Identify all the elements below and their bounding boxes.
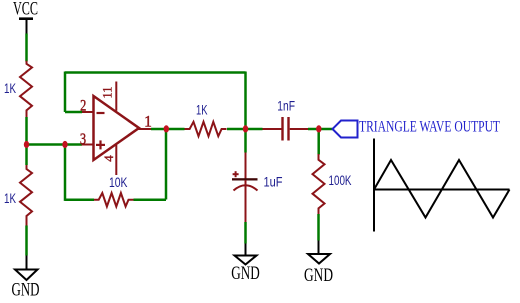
svg-text:1K: 1K	[196, 102, 208, 117]
wire VCC to R1	[25, 34, 28, 62]
svg-text:10K: 10K	[109, 175, 128, 190]
resistor R3 1K	[185, 122, 227, 136]
wire node A to R2	[25, 145, 28, 166]
node D junction	[243, 125, 248, 132]
node A junction	[24, 141, 29, 148]
wire node B to pin 3	[65, 143, 82, 146]
wire node C down to R5 row	[134, 129, 167, 200]
svg-text:1uF: 1uF	[264, 175, 283, 190]
wire pin1 to R3	[151, 128, 185, 131]
svg-text:1K: 1K	[4, 191, 16, 206]
ground (right)	[304, 241, 333, 287]
wire node A to node B	[27, 143, 66, 146]
svg-text:1: 1	[144, 114, 152, 131]
resistor R4 100K	[313, 154, 325, 214]
power symbol VCC	[13, 0, 38, 33]
svg-text:1K: 1K	[4, 81, 16, 96]
capacitor C2 1nF	[263, 117, 309, 141]
resistor R2	[20, 164, 32, 225]
ground (center)	[231, 244, 260, 285]
wire R2 to ground	[25, 226, 28, 256]
wire feedback top	[65, 72, 246, 130]
wire R3 to node D	[227, 128, 263, 131]
ground (left)	[12, 256, 40, 301]
svg-text:11: 11	[100, 87, 115, 99]
svg-text:1nF: 1nF	[277, 98, 295, 113]
wire R5 to node B	[65, 145, 94, 201]
wire C1 to ground	[244, 222, 247, 244]
op-amp U1	[82, 82, 152, 176]
svg-text:100K: 100K	[329, 173, 352, 188]
svg-text:GND: GND	[231, 263, 260, 284]
wire R1 to node A	[25, 117, 28, 145]
waveform triangle wave trace	[374, 160, 510, 218]
wire node D down to C1	[244, 129, 247, 153]
resistor R1	[20, 61, 32, 117]
resistor R5 10K feedback	[94, 193, 134, 207]
wire C2 to node E and output	[308, 128, 333, 131]
svg-text:GND: GND	[12, 280, 40, 299]
svg-text:3: 3	[80, 131, 86, 148]
wire R4 to ground	[317, 214, 320, 241]
svg-text:GND: GND	[304, 265, 333, 286]
svg-text:VCC: VCC	[13, 0, 38, 20]
waveform plot axes	[374, 139, 510, 232]
wire node E down to R4	[317, 129, 320, 155]
node E junction	[316, 125, 321, 132]
svg-text:4: 4	[101, 155, 116, 162]
svg-text:TRIANGLE WAVE OUTPUT: TRIANGLE WAVE OUTPUT	[359, 119, 500, 136]
node C junction (pin1 output)	[164, 125, 169, 132]
output terminal TRIANGLE WAVE OUTPUT	[333, 119, 501, 138]
node B junction	[62, 141, 67, 148]
capacitor C1 1uF polarized	[232, 153, 258, 223]
